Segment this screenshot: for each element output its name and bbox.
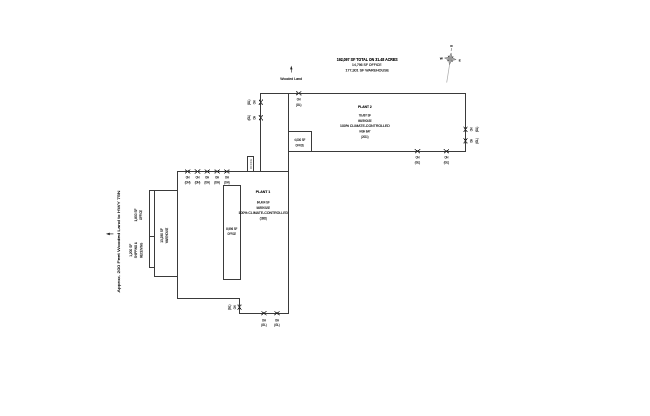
svg-text:WAREHOUSE: WAREHOUSE	[165, 227, 169, 243]
door X: Plant 2 bottom wall #2	[444, 150, 449, 153]
door X: Plant 2 bottom wall #1	[415, 150, 420, 153]
wall: corridor left (x=260.5)	[260, 94, 262, 172]
svg-text:OFFICE: OFFICE	[139, 209, 143, 220]
room: small office box on Plant 1 top wall	[248, 157, 254, 172]
wall: Plant 2 right (x=465.5)	[465, 94, 467, 152]
door X: Plant 2 top wall	[296, 92, 301, 95]
room: Plant 2 office 4,000 SF rectangle	[289, 132, 312, 152]
compass needle upper dash	[450, 48, 452, 51]
wall: corridor/Plant 1 right (x=288.5)	[288, 94, 290, 314]
door X: Plant 1 top wall #1	[185, 170, 190, 173]
door X: Plant 1 step wall	[238, 305, 241, 310]
door X: corridor left wall #2	[259, 115, 262, 120]
svg-text:(GL): (GL)	[274, 323, 279, 327]
svg-text:OH: OH	[262, 318, 266, 322]
svg-text:Approx. 200 Feet Wooded Land t: Approx. 200 Feet Wooded Land to HWY 75N	[117, 190, 121, 293]
arrow: wooded land up arrow	[290, 68, 292, 73]
svg-text:OH: OH	[445, 156, 449, 160]
svg-text:(DH): (DH)	[224, 180, 230, 184]
svg-text:(DH): (DH)	[195, 180, 201, 184]
door X: Plant 2 right wall #1	[464, 127, 467, 132]
wall: Plant 1 top (y=171.5)	[178, 171, 289, 173]
svg-text:84,404 SF: 84,404 SF	[257, 201, 270, 205]
svg-text:OFFICE: OFFICE	[296, 143, 305, 147]
wall: Plant 1 left (x=177.5)	[177, 172, 179, 299]
svg-text:OH: OH	[469, 127, 473, 131]
room: annex left strip outline	[150, 191, 155, 268]
svg-text:78,497 SF: 78,497 SF	[359, 114, 371, 118]
svg-text:100% CLIMATE-CONTROLLED: 100% CLIMATE-CONTROLLED	[239, 211, 289, 215]
svg-text:PLANT 1: PLANT 1	[256, 189, 271, 194]
compass dark diagonal star	[447, 56, 454, 63]
svg-text:OH: OH	[205, 176, 209, 180]
svg-text:OH: OH	[297, 98, 301, 102]
svg-text:(DH): (DH)	[214, 180, 220, 184]
svg-text:OFFICE: OFFICE	[228, 232, 237, 236]
svg-text:N: N	[450, 44, 452, 48]
door X: Plant 1 top wall #4	[215, 170, 220, 173]
room: annex warehouse 13,290 SF rectangle	[155, 191, 178, 277]
arrow: HWY direction left arrow	[109, 233, 114, 235]
svg-text:E: E	[459, 59, 461, 63]
svg-text:OH: OH	[215, 176, 219, 180]
svg-text:OFFICE: OFFICE	[249, 158, 253, 169]
svg-text:1,800 SF: 1,800 SF	[134, 209, 138, 222]
svg-text:OH: OH	[416, 156, 420, 160]
svg-text:(GL): (GL)	[227, 305, 231, 310]
wall: Plant 1 bottom lower (y=313.5)	[240, 313, 289, 315]
svg-text:8,996 SF: 8,996 SF	[226, 227, 237, 231]
door X: Plant 2 right wall #2	[464, 139, 467, 144]
svg-text:OH: OH	[253, 100, 257, 104]
svg-text:OH: OH	[253, 115, 257, 119]
svg-text:(DH): (DH)	[185, 180, 191, 184]
svg-text:WAREHOUSE: WAREHOUSE	[257, 206, 271, 210]
svg-text:OH: OH	[225, 176, 229, 180]
door X: Plant 1 bottom wall #2	[275, 312, 280, 315]
compass main star	[444, 52, 457, 65]
svg-text:(GL): (GL)	[247, 115, 251, 120]
svg-text:177,301 SF WAREHOUSE: 177,301 SF WAREHOUSE	[345, 67, 389, 72]
svg-text:(GL): (GL)	[296, 103, 301, 107]
wall: Plant 1 bottom upper step	[178, 298, 240, 300]
svg-text:(GL): (GL)	[261, 323, 266, 327]
svg-text:Wooded Land: Wooded Land	[280, 77, 302, 81]
svg-text:(GL): (GL)	[247, 100, 251, 105]
svg-text:W: W	[440, 56, 443, 60]
svg-text:(GL): (GL)	[415, 160, 420, 164]
svg-text:1,200 SF: 1,200 SF	[129, 244, 133, 257]
wall: annex strip divider (y=236.5)	[150, 236, 155, 238]
door X: Plant 1 bottom wall #1	[262, 312, 267, 315]
svg-text:SHIPPING &: SHIPPING &	[134, 242, 138, 259]
svg-text:WAREHOUSE: WAREHOUSE	[358, 119, 372, 123]
svg-text:(1982): (1982)	[260, 217, 267, 221]
wall: Plant 2 top (y=93.5)	[261, 93, 466, 95]
svg-text:(GL): (GL)	[475, 127, 479, 132]
svg-text:100% CLIMATE-CONTROLLED: 100% CLIMATE-CONTROLLED	[340, 124, 390, 128]
svg-text:4,000 SF: 4,000 SF	[294, 138, 305, 142]
svg-text:(GL): (GL)	[444, 160, 449, 164]
wall: Plant 1 step vertical (x=239.5)	[239, 299, 241, 314]
svg-text:RECEIVING: RECEIVING	[139, 243, 143, 258]
svg-text:HIGH BAY: HIGH BAY	[359, 130, 370, 134]
svg-text:OH: OH	[275, 318, 279, 322]
compass rose	[444, 52, 457, 65]
svg-text:OH: OH	[186, 176, 190, 180]
svg-text:OH: OH	[233, 305, 237, 309]
svg-text:13,290 SF: 13,290 SF	[160, 228, 164, 243]
room: Plant 1 office 8,996 SF rectangle	[224, 186, 241, 280]
svg-text:(2011): (2011)	[361, 135, 368, 139]
svg-text:(DH): (DH)	[204, 180, 210, 184]
door X: Plant 1 top wall #2	[195, 170, 200, 173]
wall: Plant 2 bottom (y=151.5)	[289, 151, 466, 153]
door X: corridor left wall #1	[259, 100, 262, 105]
compass core octagon	[448, 56, 453, 61]
svg-text:(GL): (GL)	[475, 138, 479, 143]
door X: Plant 1 top wall #5	[225, 170, 230, 173]
svg-text:OH: OH	[196, 176, 200, 180]
svg-text:PLANT 2: PLANT 2	[358, 104, 372, 109]
compass needle tail	[447, 63, 450, 83]
door X: Plant 1 top wall #3	[205, 170, 210, 173]
svg-text:OH: OH	[469, 138, 473, 142]
